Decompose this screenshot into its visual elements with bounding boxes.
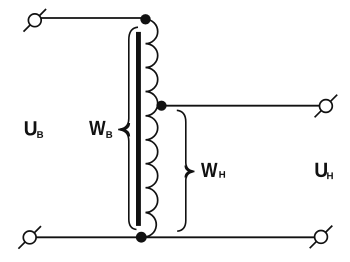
wire top (terminal to winding top)	[39, 17, 146, 19]
terminal bottom-right	[310, 226, 333, 249]
junction dot tap	[156, 101, 166, 111]
junction dot top	[140, 14, 150, 24]
core bar	[136, 32, 141, 226]
label W_B	[89, 121, 112, 138]
terminal top-left	[24, 9, 47, 32]
winding (coil)	[143, 19, 158, 237]
brace W_B	[118, 27, 138, 229]
label W_H	[201, 163, 225, 178]
terminal bottom-left	[18, 226, 41, 249]
label U_B	[25, 121, 43, 138]
wire bottom	[35, 236, 315, 238]
junction dot bottom	[136, 232, 147, 243]
label U_H	[315, 163, 332, 179]
terminal middle-right	[315, 95, 338, 118]
brace W_H	[177, 110, 195, 231]
wire middle tap	[162, 105, 321, 107]
